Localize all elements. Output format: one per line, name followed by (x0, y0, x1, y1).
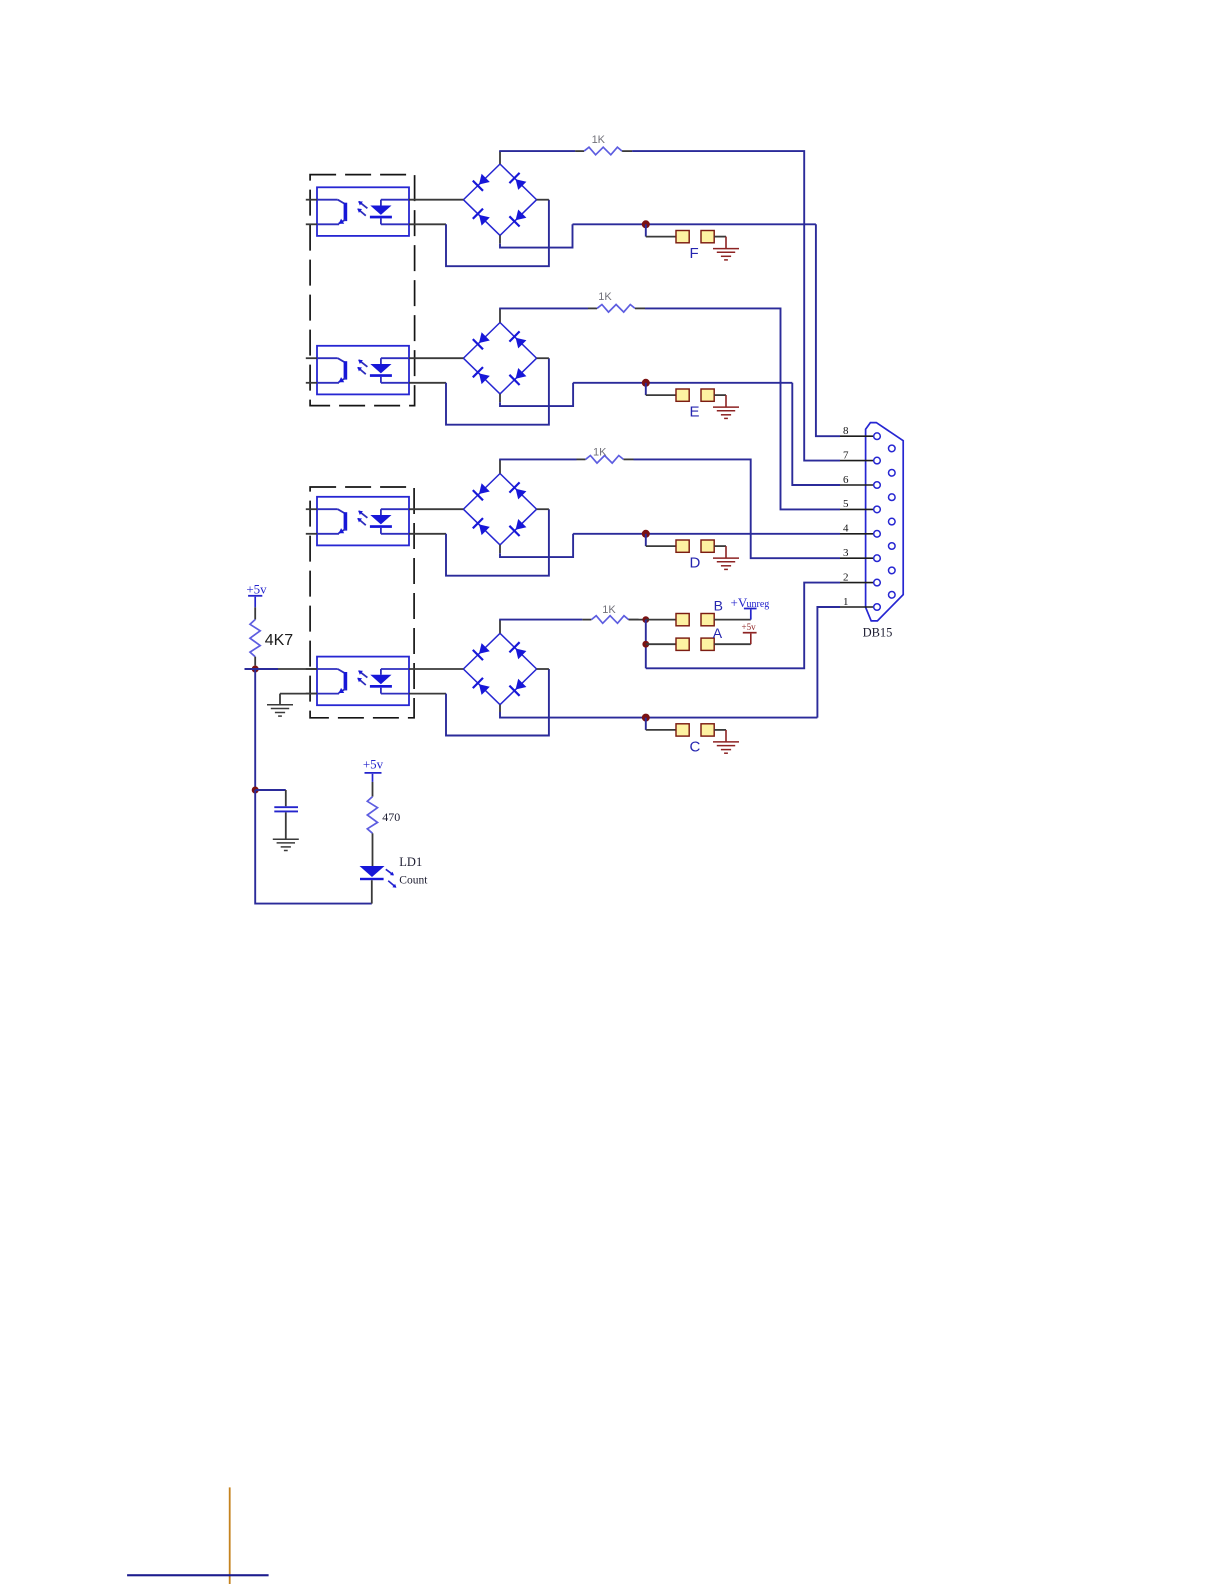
wire (306, 668, 317, 670)
optocoupler S4 (317, 657, 409, 706)
wire (499, 545, 501, 553)
wire (629, 619, 639, 621)
wire C to DB15 pin 1 (817, 607, 840, 718)
ground (signal) at jumper E (713, 407, 739, 418)
wire (306, 693, 317, 695)
DB15 rear pin (889, 470, 896, 477)
wire (306, 223, 317, 225)
resistor 470 (367, 797, 400, 834)
wire (646, 619, 676, 621)
wire to jumper C (645, 718, 647, 730)
junction dot capacitor node (252, 787, 259, 794)
power +5v (top left) (246, 581, 267, 607)
jumper pad C1 (676, 724, 689, 736)
jumper pad D1 (676, 540, 689, 552)
resistor 1K (S3 stage) (586, 447, 624, 464)
junction dot on net C (642, 714, 650, 722)
svg-text:5: 5 (843, 498, 849, 510)
capacitor C1 (274, 807, 298, 811)
wire (499, 459, 501, 473)
svg-text:3: 3 (843, 547, 849, 559)
svg-text:470: 470 (382, 810, 400, 824)
junction dot node B (642, 616, 649, 623)
junction dot +5v/4K7 node (252, 666, 259, 673)
wire to jumper E (645, 383, 647, 395)
ground (logic) at capacitor (273, 839, 299, 850)
DB15 pin 4 (840, 523, 880, 538)
wire net A/B (645, 620, 647, 669)
svg-text:D: D (690, 555, 701, 572)
svg-text:+5v: +5v (246, 581, 267, 596)
wire (499, 308, 501, 322)
DB15 rear pin (889, 445, 896, 452)
jumper pad C2 (701, 724, 714, 736)
DB15 pin 3 (840, 547, 880, 562)
wire (499, 394, 501, 402)
diode bridge S4 (463, 633, 536, 704)
wire (714, 236, 726, 238)
wire (371, 880, 373, 903)
svg-text:7: 7 (843, 449, 849, 461)
wire rail (254, 669, 256, 790)
wire 1K(S3) to DB15 pin 3 (634, 459, 841, 558)
junction dot on net D (642, 530, 650, 538)
optocoupler S2 (317, 346, 409, 395)
wire (499, 620, 501, 634)
svg-text:1K: 1K (592, 134, 606, 146)
DB15 pin 1 (840, 596, 880, 611)
wire (409, 382, 446, 384)
ground (signal) at jumper F (713, 249, 739, 260)
DB15 rear pin (889, 592, 896, 599)
wire (409, 693, 446, 695)
ground (signal) at jumper C (713, 742, 739, 753)
wire rail to LED return (255, 790, 372, 904)
resistor 4K7 (250, 620, 293, 657)
DB15 pin 6 (840, 474, 880, 489)
wire (409, 223, 446, 225)
wire (646, 643, 676, 645)
junction dot on net F (642, 220, 650, 228)
wire (285, 812, 287, 839)
svg-text:F: F (690, 245, 699, 262)
diode bridge S1 (463, 164, 536, 235)
wire (635, 307, 645, 309)
wire (714, 394, 726, 396)
dashed enclosure box 2 (optocouplers 3-4) (310, 487, 414, 718)
wire (714, 643, 751, 645)
wire (409, 199, 463, 201)
jumper pad D2 (701, 540, 714, 552)
wire to jumper F (645, 224, 647, 236)
svg-text:6: 6 (843, 474, 849, 486)
resistor 1K (S4 stage) (591, 604, 628, 623)
DB15 rear pin (889, 543, 896, 550)
wire (306, 533, 317, 535)
LED LD1 (360, 866, 397, 888)
wire 1K(S2) to DB15 pin 5 (645, 308, 840, 509)
wire (409, 508, 463, 510)
DB15 rear pin (889, 518, 896, 525)
jumper pad E1 (676, 389, 689, 401)
svg-text:B: B (714, 597, 723, 613)
jumper pad A1 (676, 638, 689, 650)
wire F to DB15 pin 8 (816, 224, 840, 436)
wire (245, 668, 279, 670)
svg-text:C: C (690, 738, 701, 755)
wire (254, 657, 256, 666)
svg-text:1K: 1K (598, 291, 612, 303)
frame line (navy) (127, 1574, 269, 1576)
resistor 1K (S1 stage) (584, 134, 622, 155)
optocoupler S1 (317, 187, 409, 236)
jumper pad F1 (676, 231, 689, 243)
svg-text:8: 8 (843, 425, 849, 437)
wire A/B net to DB15 pin 2 (646, 583, 840, 669)
wire (255, 789, 286, 791)
DB15 rear pin (889, 567, 896, 574)
svg-text:2: 2 (843, 571, 849, 583)
optocoupler S3 (317, 497, 409, 546)
DB15 pin 2 (840, 571, 880, 585)
wire net D to DB15 pin 4 (573, 533, 840, 535)
wire (499, 235, 501, 243)
jumper pad F2 (701, 231, 714, 243)
DB15 pin 5 (840, 498, 880, 513)
svg-text:+V: +V (731, 595, 748, 610)
junction dot on net E (642, 379, 650, 387)
wire net E (573, 382, 792, 384)
diode bridge S3 (463, 474, 536, 545)
wire (499, 151, 501, 164)
frame line (orange) (229, 1487, 231, 1584)
wire (280, 693, 317, 695)
ground (signal) at jumper D (713, 558, 739, 569)
wire to jumper D (645, 534, 647, 546)
wire net C (499, 705, 501, 712)
wire (254, 607, 256, 619)
jumper pad E2 (701, 389, 714, 401)
wire (622, 150, 632, 152)
svg-text:DB15: DB15 (863, 626, 893, 640)
dashed enclosure box 1 (optocouplers 1-2) (310, 175, 415, 406)
junction dot node A (642, 641, 649, 648)
svg-text:+5v: +5v (742, 622, 757, 632)
wire (306, 357, 317, 359)
wire (714, 619, 751, 621)
svg-text:+5v: +5v (363, 757, 384, 772)
wire (306, 508, 317, 510)
svg-text:1K: 1K (593, 447, 607, 459)
DB15 pin 8 (840, 425, 880, 440)
svg-text:unreg: unreg (747, 599, 770, 610)
wire (629, 619, 646, 621)
jumper pad A2 (701, 638, 714, 650)
svg-text:1: 1 (843, 596, 849, 608)
resistor 1K (S2 stage) (597, 291, 635, 312)
DB15 rear pin (889, 494, 896, 501)
wire E to DB15 pin 6 (792, 383, 840, 485)
wire (372, 782, 374, 797)
svg-text:A: A (713, 625, 723, 641)
power +5v (LED branch) (363, 757, 384, 782)
wire (306, 382, 317, 384)
wire (714, 545, 726, 547)
wire net F (573, 223, 816, 225)
DB15 pin 7 (840, 449, 880, 464)
wire 1K(S1) to DB15 pin 7 (632, 151, 840, 461)
svg-text:4K7: 4K7 (265, 632, 294, 649)
connector DB15 (863, 423, 904, 640)
svg-text:LD1: LD1 (399, 855, 422, 869)
power +V unreg (731, 595, 770, 619)
wire (372, 833, 374, 866)
svg-text:4: 4 (843, 523, 849, 535)
wire (306, 199, 317, 201)
svg-text:Count: Count (399, 874, 428, 886)
wire (714, 729, 726, 731)
svg-text:E: E (690, 404, 700, 421)
jumper pad B2 (701, 614, 714, 626)
wire (409, 533, 446, 535)
diode bridge S2 (463, 323, 536, 394)
svg-text:1K: 1K (602, 604, 616, 616)
power +5v (red, at jumper A) (742, 622, 757, 644)
wire (624, 458, 634, 460)
wire (409, 357, 463, 359)
wire (409, 668, 463, 670)
jumper pad B1 (676, 614, 689, 626)
ground (logic) at optocoupler S4 (267, 705, 293, 716)
